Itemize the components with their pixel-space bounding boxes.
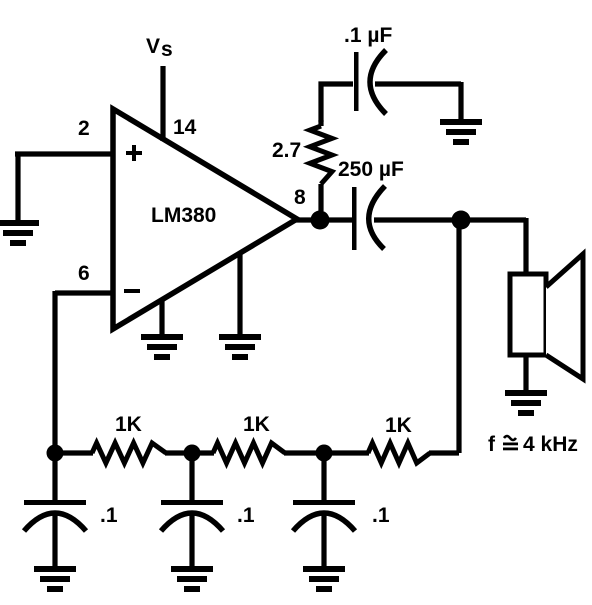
capacitor C4 .1 (161, 500, 223, 531)
capacitor C3 .1 (24, 500, 86, 531)
wire: node to capacitor C5 (321, 453, 326, 500)
svg-text:1K: 1K (243, 413, 270, 436)
wire: C1 to ground G4 (375, 82, 461, 119)
wire: node B down to feedback bus (456, 218, 461, 453)
wire: bus R3 to R4 (284, 450, 369, 455)
svg-text:2.7: 2.7 (272, 139, 301, 162)
op-amp U1 LM380 triangle (113, 109, 297, 329)
Vs supply wire (pin 14) (160, 66, 165, 141)
svg-text:f: f (488, 433, 496, 456)
node N1 (47, 445, 64, 462)
capacitor C1 curved plate (370, 50, 386, 114)
svg-text:.1: .1 (372, 504, 390, 527)
wire: C3 to ground (52, 512, 57, 566)
capacitor C2 curved plate (369, 186, 385, 249)
resistor R2 1K (92, 443, 166, 463)
capacitor C1 .1 uF (flat plate) (354, 52, 359, 111)
node B (452, 211, 471, 230)
node N2 (184, 445, 201, 462)
node N3 (316, 445, 333, 462)
wire: R1 top elbow to C1 (321, 84, 353, 122)
svg-text:14: 14 (173, 116, 197, 139)
node A (output node, pin 8) (311, 211, 330, 230)
capacitor C2 250 uF (flat plate) (352, 187, 357, 250)
wire: pin 2 input wire to ground (15, 152, 113, 220)
speaker LS1 driver body (510, 274, 546, 355)
wire: node A to C2 (320, 217, 352, 222)
svg-text:250 µF: 250 µF (338, 158, 404, 181)
ground stub from U1 bottom edge (left) (159, 299, 164, 334)
wire: bus R2 to R3 (165, 450, 214, 455)
svg-text:.1: .1 (237, 504, 255, 527)
svg-text:s: s (161, 38, 173, 61)
wire: U1 output pin 8 to node A (295, 217, 318, 222)
wire: node to capacitor C4 (189, 453, 194, 500)
wire: node B to speaker (461, 218, 526, 276)
ground under C4 (171, 566, 213, 592)
wire: C4 to ground (189, 512, 194, 566)
resistor R1 2.7 (vertical) (318, 120, 323, 211)
wire: node to capacitor C3 (52, 453, 57, 500)
U1 noninverting input + symbol (126, 145, 142, 161)
frequency label f approx 4 kHz (488, 433, 578, 456)
svg-text:.1: .1 (100, 504, 118, 527)
svg-text:.1 µF: .1 µF (344, 24, 392, 47)
resistor R3 1K (213, 443, 285, 463)
wire: C2 to node B (374, 217, 460, 222)
svg-text:4 kHz: 4 kHz (523, 433, 578, 456)
svg-text:1K: 1K (385, 414, 412, 437)
svg-text:1K: 1K (115, 413, 142, 436)
wire: bus R4 to right riser (429, 450, 459, 455)
U1 inverting input - symbol (124, 289, 140, 293)
wire: C5 to ground (321, 512, 326, 566)
ground G2 (under U1, left) (141, 334, 183, 360)
capacitor C5 .1 (293, 500, 355, 531)
wire: bus N1 to R2 (55, 450, 93, 455)
wire: pin 6 to node N1 (55, 291, 113, 453)
wire: speaker to ground G5 (523, 355, 528, 390)
svg-text:2: 2 (78, 117, 90, 140)
ground under C5 (303, 566, 345, 592)
ground G4 (top-right) (440, 119, 482, 145)
ground G1 (top-left, pin 2) (0, 220, 39, 246)
svg-text:LM380: LM380 (151, 204, 216, 227)
ground G5 (under speaker) (505, 390, 547, 416)
ground G3 (under U1, right) (219, 334, 261, 360)
speaker LS1 cone (546, 254, 583, 379)
svg-text:8: 8 (294, 186, 306, 209)
svg-text:6: 6 (78, 262, 90, 285)
ground under C3 (34, 566, 76, 592)
svg-text:V: V (146, 35, 160, 58)
resistor R4 1K (368, 443, 430, 463)
ground stub from U1 bottom edge (right) (237, 253, 242, 334)
